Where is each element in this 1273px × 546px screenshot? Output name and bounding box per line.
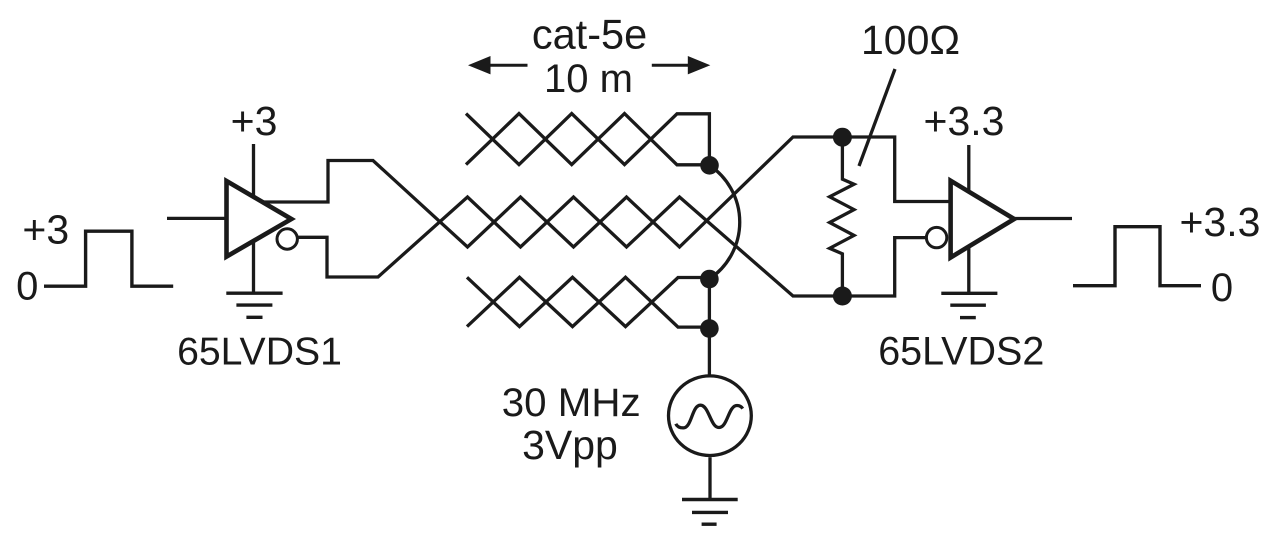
- svg-text:65LVDS1: 65LVDS1: [177, 331, 342, 374]
- svg-text:+3: +3: [231, 98, 278, 144]
- svg-text:100Ω: 100Ω: [861, 17, 960, 63]
- svg-text:+3.3: +3.3: [1180, 199, 1261, 245]
- svg-text:30 MHz: 30 MHz: [502, 380, 641, 425]
- svg-text:+3: +3: [22, 206, 69, 252]
- svg-text:3Vpp: 3Vpp: [522, 422, 618, 468]
- svg-text:65LVDS2: 65LVDS2: [878, 329, 1044, 373]
- svg-text:0: 0: [1211, 266, 1233, 310]
- svg-text:10 m: 10 m: [544, 57, 633, 101]
- svg-text:0: 0: [16, 265, 38, 309]
- svg-text:cat-5e: cat-5e: [532, 11, 647, 58]
- svg-text:+3.3: +3.3: [924, 98, 1005, 144]
